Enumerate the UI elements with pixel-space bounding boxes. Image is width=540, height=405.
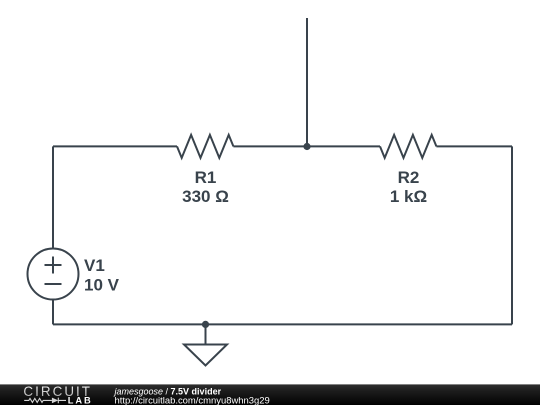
resistor R2 [380,135,436,158]
wire: top-left horizontal (left corner to R1) [53,145,177,147]
wire: bottom horizontal [53,323,512,325]
wire: antenna vertical [306,18,308,146]
wire: ground stub [205,324,207,344]
ground [184,345,227,366]
resistor R1 [177,135,233,158]
svg-text:1 kΩ: 1 kΩ [390,187,427,206]
footer bar [0,384,540,405]
svg-text:10 V: 10 V [84,276,120,295]
logo diode triangle [52,398,58,404]
svg-text:330 Ω: 330 Ω [182,187,229,206]
svg-text:http://circuitlab.com/cmnyu8wh: http://circuitlab.com/cmnyu8whn3g29 [115,395,270,405]
svg-text:LAB: LAB [68,396,93,405]
svg-text:R1: R1 [195,168,217,187]
svg-text:V1: V1 [84,256,105,275]
node junction bottom (ground tap) [202,321,209,328]
wire: between R1 and R2 [233,145,380,147]
svg-text:R2: R2 [398,168,420,187]
voltage source V1 [28,249,79,300]
minus sign [45,283,62,285]
wire: left vertical below source [52,300,54,325]
wire: right vertical [511,146,513,324]
logo schematic line (resistor + diode) [24,398,66,404]
node junction top [303,143,310,150]
plus sign [45,257,62,274]
wire: left vertical above source [52,146,54,248]
wire: R2 to right corner [436,145,512,147]
